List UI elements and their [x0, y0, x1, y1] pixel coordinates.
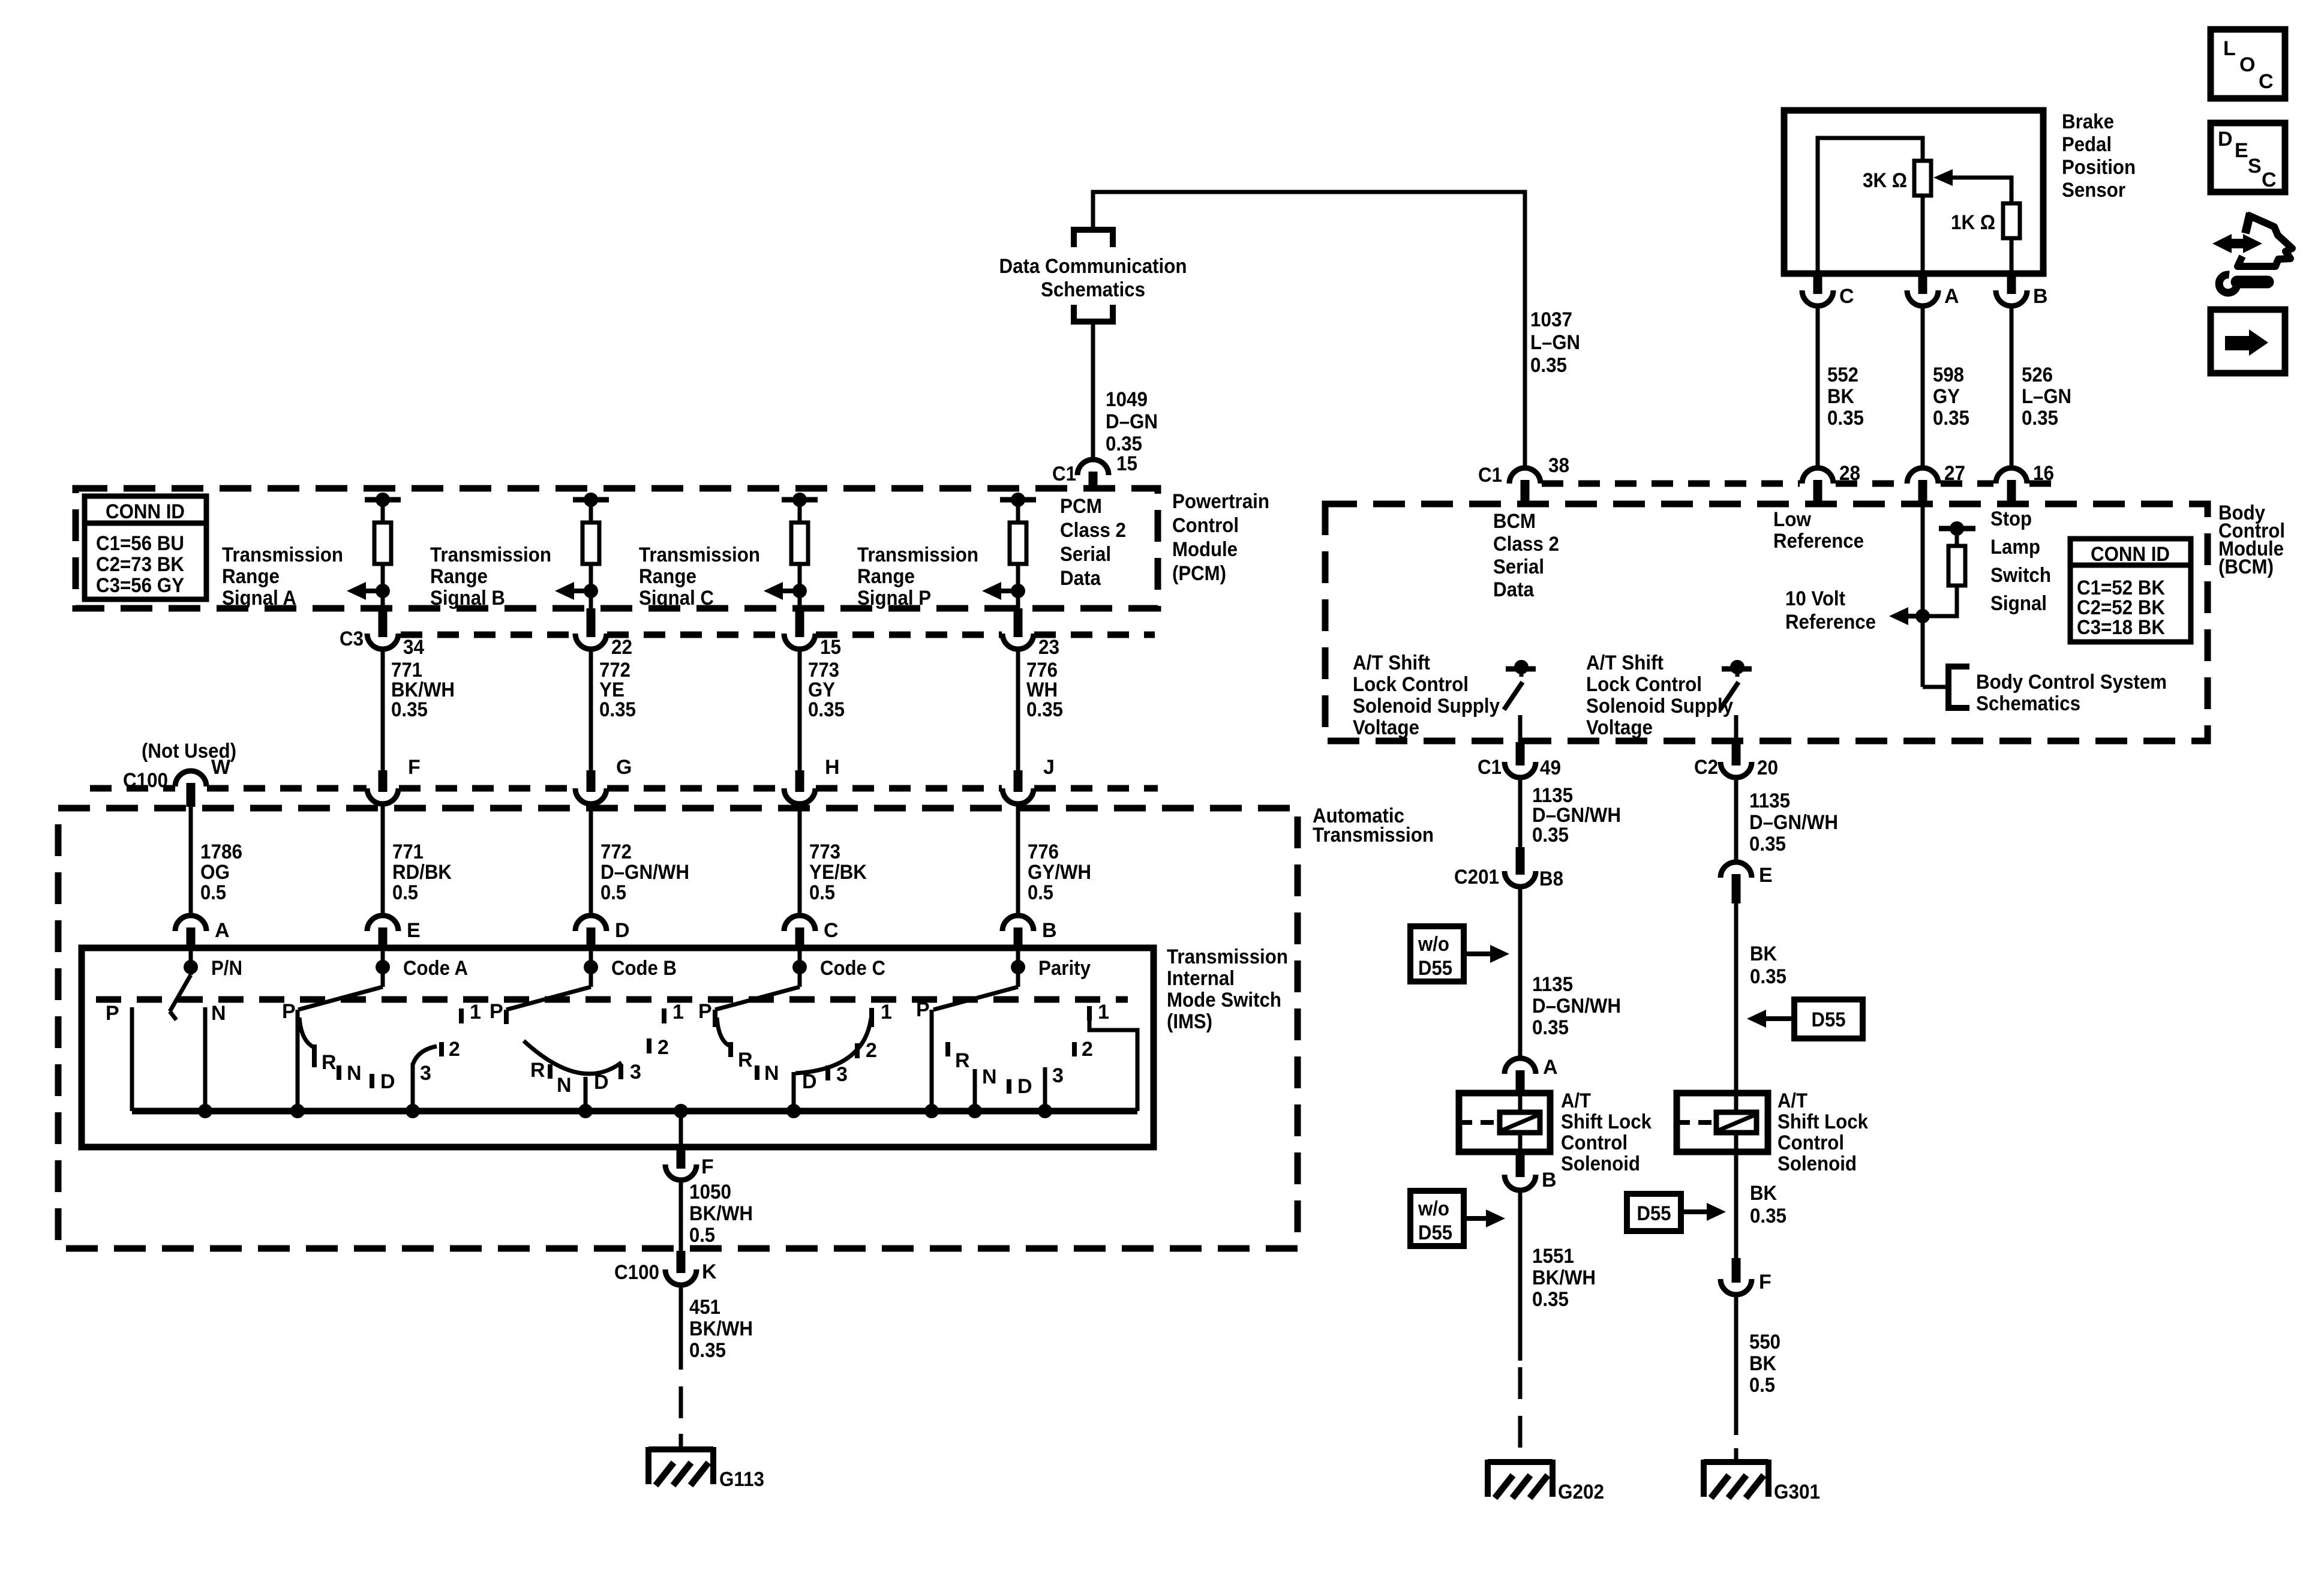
contact N of Parity (to bus) [973, 1069, 977, 1111]
connector pin sensor A [1918, 274, 1927, 294]
svg-text:BK: BK [1750, 942, 1777, 965]
connector pin C100 H [795, 770, 804, 792]
svg-text:BK/WH: BK/WH [1532, 1266, 1596, 1289]
svg-text:Transmission: Transmission [1313, 824, 1434, 846]
wire 1049 D-GN [1091, 322, 1095, 461]
svg-text:Reference: Reference [1773, 530, 1864, 553]
svg-text:0.35: 0.35 [1026, 698, 1063, 721]
arrow option D55 (lower) [1681, 1209, 1710, 1214]
svg-text:Low: Low [1773, 508, 1812, 531]
svg-text:Code B: Code B [611, 957, 677, 980]
contact R of Code B [548, 1064, 553, 1079]
connector pin C2 20 (BCM) [1732, 742, 1741, 766]
wire BK 0.35 (upper right) [1734, 903, 1739, 1095]
svg-text:CONN ID: CONN ID [2091, 543, 2170, 566]
connector pin C100 F [379, 770, 388, 792]
svg-text:C100: C100 [614, 1261, 659, 1284]
svg-text:3: 3 [836, 1063, 848, 1086]
svg-text:Solenoid Supply: Solenoid Supply [1586, 695, 1733, 718]
contact D of Code A [370, 1074, 374, 1088]
switch P/N lever [170, 975, 191, 1011]
switch Code B (IMS) input wire, junction and lever [589, 949, 593, 987]
contact 3 of Parity (to bus) [1043, 1067, 1047, 1111]
svg-text:(PCM): (PCM) [1172, 562, 1226, 585]
connector row C3 dashed line [401, 632, 575, 638]
svg-text:F: F [408, 756, 421, 779]
resistor internal PCM Transmission Range Signal P pull-up [1000, 497, 1036, 503]
svg-text:Brake: Brake [2062, 110, 2114, 133]
svg-text:E: E [407, 919, 421, 942]
wire 451 BK/WH to ground [679, 1285, 683, 1370]
svg-text:Serial: Serial [1493, 556, 1544, 578]
module box Body Control Module (BCM) dashed outline [1325, 504, 2208, 741]
connector pin C3 22 (PCM) [587, 608, 596, 637]
resistor internal PCM Transmission Range Signal C pull-up [782, 497, 818, 503]
contact R of Code A [312, 1044, 317, 1067]
svg-text:C3=56 GY: C3=56 GY [96, 574, 184, 597]
ground G301 [1704, 1459, 1768, 1465]
wire 1551 BK/WH to ground [1518, 1189, 1523, 1361]
dashed line through switch levers [96, 996, 1128, 1003]
svg-text:451: 451 [689, 1296, 720, 1319]
svg-text:2: 2 [866, 1039, 877, 1062]
svg-text:L–GN: L–GN [1530, 331, 1580, 354]
svg-text:YE/BK: YE/BK [809, 861, 867, 884]
contact D of Parity [1007, 1079, 1011, 1094]
arrow option w/o D55 (upper) [1464, 951, 1494, 956]
option box w/o D55 (upper) [1410, 926, 1464, 981]
svg-text:Reference: Reference [1785, 611, 1876, 634]
wire 776 GY/WH to IMS pin B [1016, 804, 1020, 916]
contact N of Code A [337, 1065, 341, 1080]
svg-text:BCM: BCM [1493, 510, 1536, 533]
connector pin C100 W (not used) [175, 771, 206, 786]
svg-text:0.35: 0.35 [689, 1339, 726, 1362]
svg-text:Sensor: Sensor [2062, 179, 2125, 202]
arc P to R Code C [717, 1017, 731, 1046]
potentiometer wiper arrow [1949, 178, 2011, 203]
svg-text:P/N: P/N [211, 957, 242, 980]
connector pin IMS E [367, 915, 398, 931]
svg-text:H: H [825, 756, 840, 779]
connector table CONN ID (PCM C1=56 BU C2=73 BK C3=56 GY) [85, 496, 206, 599]
contact P of Code B [504, 1010, 509, 1024]
svg-text:Module: Module [1172, 538, 1238, 561]
svg-text:Shift Lock: Shift Lock [1561, 1110, 1652, 1133]
svg-text:N: N [211, 1002, 226, 1025]
ground G113 [679, 1434, 683, 1449]
svg-text:C: C [2262, 169, 2277, 191]
svg-text:A: A [215, 919, 230, 942]
svg-text:J: J [1043, 756, 1055, 779]
option box D55 (lower) [1627, 1194, 1681, 1231]
resistor internal PCM Transmission Range Signal A pull-up [365, 497, 401, 503]
svg-text:D–GN: D–GN [1106, 410, 1158, 433]
svg-text:0.35: 0.35 [1532, 1288, 1569, 1311]
svg-text:Schematics: Schematics [1976, 692, 2080, 715]
svg-text:0.5: 0.5 [600, 881, 626, 904]
svg-text:N: N [347, 1062, 362, 1085]
svg-text:23: 23 [1038, 636, 1059, 659]
off-page reference Body Control System Schematics [1948, 667, 1969, 708]
svg-text:Shift Lock: Shift Lock [1777, 1110, 1868, 1133]
wire 1050 BK/WH [679, 1180, 683, 1251]
svg-text:D: D [615, 919, 630, 942]
svg-text:G301: G301 [1774, 1481, 1820, 1503]
svg-text:0.35: 0.35 [2022, 407, 2058, 430]
switch Parity (IMS) input wire, junction and lever [1016, 949, 1020, 987]
svg-text:2: 2 [657, 1036, 669, 1059]
svg-text:Lock Control: Lock Control [1586, 673, 1702, 696]
connector pin BCM 28 [1802, 468, 1833, 484]
svg-text:R: R [955, 1049, 970, 1072]
svg-text:C1: C1 [1478, 464, 1502, 487]
svg-text:Data Communication: Data Communication [999, 255, 1187, 278]
svg-text:Transmission: Transmission [430, 544, 551, 566]
switch A/T shift lock supply (right) in BCM [1722, 667, 1752, 672]
svg-text:C1=56 BU: C1=56 BU [96, 532, 184, 555]
svg-text:0.35: 0.35 [391, 698, 428, 721]
icon box LOC [2211, 29, 2285, 98]
solenoid A/T Shift Lock Control Solenoid (left) [1459, 1093, 1550, 1152]
svg-text:Control: Control [1172, 514, 1239, 537]
switch A/T shift lock supply (left) in BCM [1506, 667, 1536, 672]
component box Brake Pedal Position Sensor [1784, 110, 2043, 274]
svg-text:L: L [2223, 37, 2236, 60]
contact P of Code C [713, 1010, 717, 1027]
svg-text:D: D [802, 1070, 817, 1093]
svg-text:20: 20 [1757, 757, 1778, 779]
svg-text:0.35: 0.35 [1750, 1205, 1786, 1227]
svg-text:15: 15 [820, 636, 841, 659]
svg-text:Control: Control [1561, 1131, 1628, 1154]
svg-text:F: F [701, 1155, 714, 1178]
arc P to R Code A [299, 1017, 314, 1047]
svg-text:B: B [1542, 1169, 1557, 1191]
svg-text:22: 22 [611, 636, 632, 659]
svg-text:RD/BK: RD/BK [392, 861, 452, 884]
svg-text:Parity: Parity [1038, 957, 1091, 980]
arrow 10 Volt Reference [1905, 614, 1923, 619]
svg-text:C1: C1 [1052, 463, 1076, 485]
svg-text:O: O [2239, 53, 2255, 76]
wire 1K to pin B [2010, 238, 2014, 274]
wire 771 RD/BK to IMS pin E [381, 804, 385, 916]
svg-text:N: N [982, 1065, 997, 1088]
bus wire IMS common (bottom) [132, 1108, 1137, 1115]
svg-text:34: 34 [403, 636, 424, 659]
wire 1135 D-GN/WH (lower) [1518, 887, 1523, 1059]
svg-text:0.35: 0.35 [1827, 407, 1864, 430]
svg-text:2: 2 [1082, 1038, 1093, 1061]
connector row C100 dashed line [90, 785, 175, 792]
svg-text:0.35: 0.35 [1750, 965, 1786, 988]
svg-text:Signal P: Signal P [857, 587, 931, 610]
svg-text:Powertrain: Powertrain [1172, 490, 1269, 513]
svg-text:2: 2 [449, 1038, 460, 1061]
svg-text:Range: Range [857, 565, 915, 588]
svg-text:B: B [2033, 285, 2048, 308]
svg-text:CONN ID: CONN ID [106, 500, 185, 523]
svg-text:D55: D55 [1812, 1008, 1846, 1031]
svg-text:Solenoid: Solenoid [1561, 1152, 1640, 1175]
wire arc center to bus Code B [584, 1077, 588, 1111]
contact 3 of Code C [825, 1065, 830, 1080]
svg-text:Transmission: Transmission [1167, 945, 1288, 968]
svg-text:C: C [1839, 285, 1854, 308]
connector table CONN ID (BCM C1=52 BK C2=52 BK C3=18 BK) [2070, 539, 2191, 642]
svg-text:1K Ω: 1K Ω [1951, 211, 1995, 234]
svg-text:G: G [616, 756, 632, 779]
svg-text:0.35: 0.35 [1933, 407, 1969, 430]
svg-text:C: C [2259, 70, 2274, 93]
svg-text:L–GN: L–GN [2022, 385, 2071, 408]
arc 3 to 2 Code A [413, 1046, 437, 1065]
svg-text:BK: BK [1827, 385, 1854, 408]
svg-text:Lamp: Lamp [1990, 536, 2040, 559]
svg-text:Voltage: Voltage [1586, 716, 1653, 739]
connector pin C1 15 (PCM) [1077, 460, 1109, 475]
connector pin C1 38 (BCM) [1509, 468, 1541, 484]
svg-text:10 Volt: 10 Volt [1785, 587, 1845, 610]
wire class 2 serial data link (top) [1093, 192, 1525, 469]
connector pin F (in-line right) [1732, 1258, 1741, 1283]
contact D wire to bus Code C [792, 1072, 796, 1111]
svg-text:Body Control System: Body Control System [1976, 671, 2167, 694]
svg-text:Switch: Switch [1990, 564, 2051, 587]
svg-text:P: P [106, 1002, 119, 1025]
svg-text:1786: 1786 [200, 840, 242, 863]
svg-text:Class 2: Class 2 [1060, 519, 1126, 542]
connector pin IMS C [784, 915, 815, 931]
svg-text:C201: C201 [1454, 866, 1499, 888]
svg-text:Position: Position [2062, 156, 2136, 179]
svg-text:552: 552 [1827, 364, 1858, 386]
contact 1 of Parity with jumper to bus end [1087, 1006, 1092, 1020]
resistor 3K ohm (potentiometer) [1914, 161, 1931, 196]
svg-text:D–GN/WH: D–GN/WH [1749, 811, 1838, 834]
svg-text:3K Ω: 3K Ω [1863, 169, 1907, 192]
svg-text:1135: 1135 [1749, 789, 1790, 812]
switch Code A (IMS) input wire, junction and lever [381, 949, 385, 987]
svg-text:BK/WH: BK/WH [689, 1202, 753, 1225]
wire sensor internal (pin C to 3K top) [1818, 138, 1923, 274]
svg-text:Transmission: Transmission [222, 544, 343, 566]
svg-text:E: E [2235, 139, 2248, 162]
svg-text:N: N [764, 1062, 779, 1085]
svg-text:1: 1 [470, 1001, 481, 1023]
svg-text:P: P [698, 1000, 712, 1023]
svg-text:Mode Switch: Mode Switch [1167, 989, 1281, 1011]
svg-text:1050: 1050 [689, 1181, 731, 1203]
svg-text:C: C [824, 919, 839, 942]
arrow option w/o D55 (lower) [1464, 1216, 1490, 1221]
svg-text:1049: 1049 [1106, 388, 1148, 411]
svg-text:BK: BK [1749, 1352, 1776, 1375]
contact 1 of Code C [869, 1008, 874, 1027]
svg-text:C2=73 BK: C2=73 BK [96, 553, 184, 576]
svg-text:Range: Range [639, 565, 696, 588]
svg-text:R: R [322, 1051, 337, 1074]
svg-text:G113: G113 [719, 1468, 764, 1491]
solenoid A/T Shift Lock Control Solenoid (right) [1677, 1093, 1768, 1152]
connector pin IMS D [575, 915, 606, 931]
contact N of Code C [755, 1065, 759, 1080]
connector pin sensor B [2007, 274, 2016, 294]
svg-text:D55: D55 [1418, 1221, 1452, 1244]
icon vehicle with wrench [2212, 234, 2232, 253]
svg-text:Transmission: Transmission [639, 544, 760, 566]
svg-text:0.35: 0.35 [1530, 354, 1567, 377]
svg-text:550: 550 [1749, 1331, 1780, 1353]
svg-text:R: R [530, 1059, 545, 1082]
ground G202 [1488, 1459, 1553, 1465]
wire 550 BK to ground [1734, 1295, 1739, 1435]
svg-text:B8: B8 [1539, 867, 1563, 890]
contact 3 of Code B [618, 1064, 623, 1079]
contact 2 of Code A [439, 1042, 444, 1056]
connector row BCM top dashed line [1542, 481, 1800, 487]
wire 77x A PCM to C100 [381, 649, 385, 770]
svg-text:Solenoid: Solenoid [1777, 1152, 1857, 1175]
svg-text:w/o: w/o [1418, 1197, 1449, 1220]
connector pin C201 B8 [1516, 847, 1525, 875]
connector pin BCM 27 [1907, 468, 1938, 484]
icon box DESC [2211, 123, 2285, 192]
connector pin C3 23 (PCM) [1014, 608, 1023, 637]
svg-text:BK/WH: BK/WH [689, 1317, 753, 1340]
wire 77x P PCM to C100 [1016, 649, 1020, 770]
svg-text:Class 2: Class 2 [1493, 533, 1559, 556]
connector pin BCM 16 [1996, 468, 2027, 484]
connector pin F (IMS output) [677, 1147, 686, 1169]
svg-text:Signal A: Signal A [222, 587, 296, 610]
resistor 1K ohm [2003, 203, 2020, 238]
svg-text:0.5: 0.5 [392, 881, 418, 904]
svg-text:3: 3 [1052, 1064, 1064, 1087]
arrow Transmission Range Signal A [362, 589, 383, 593]
svg-text:Stop: Stop [1990, 508, 2032, 530]
svg-text:PCM: PCM [1060, 495, 1102, 518]
svg-text:A/T: A/T [1777, 1089, 1807, 1112]
svg-text:D55: D55 [1637, 1202, 1671, 1225]
wire PCM signal A internal with junction [381, 564, 385, 608]
svg-text:A/T Shift: A/T Shift [1586, 652, 1664, 674]
svg-text:Range: Range [222, 565, 280, 588]
svg-text:0.5: 0.5 [1028, 881, 1053, 904]
svg-text:P: P [490, 1000, 503, 1023]
svg-text:A: A [1543, 1056, 1558, 1079]
wire PCM signal P internal with junction [1016, 564, 1020, 608]
svg-text:0.5: 0.5 [200, 881, 226, 904]
arrow Transmission Range Signal B [571, 589, 591, 593]
module box PCM (Powertrain Control Module) dashed outline [76, 488, 1158, 608]
svg-text:Data: Data [1060, 567, 1101, 590]
connector pin E (in-line) [1721, 862, 1752, 878]
switch Code C (IMS) input wire, junction and lever [798, 949, 802, 987]
contact 2 of Code B [647, 1038, 651, 1053]
svg-text:S: S [2248, 155, 2262, 178]
arc 1 to D Code C [795, 1018, 871, 1073]
svg-text:1: 1 [1098, 1001, 1109, 1023]
svg-text:Transmission: Transmission [857, 544, 978, 566]
svg-text:0.5: 0.5 [809, 881, 835, 904]
wire IMS common output to pin F [679, 1111, 683, 1147]
wire 77x B PCM to C100 [589, 649, 593, 770]
svg-text:Data: Data [1493, 578, 1535, 601]
contact R of Parity [945, 1042, 950, 1056]
svg-text:Control: Control [1777, 1131, 1844, 1154]
svg-text:0.5: 0.5 [1749, 1374, 1775, 1397]
svg-text:Serial: Serial [1060, 543, 1111, 566]
connector pin IMS A [175, 915, 206, 931]
svg-text:0.35: 0.35 [808, 698, 845, 721]
svg-text:0.35: 0.35 [599, 698, 636, 721]
svg-text:D: D [380, 1070, 395, 1093]
svg-text:C3: C3 [340, 628, 364, 650]
arc R-N-D-3 Code B [524, 1041, 621, 1074]
svg-text:OG: OG [200, 861, 230, 884]
connector pin C3 34 (PCM) [379, 608, 388, 637]
svg-text:Internal: Internal [1167, 967, 1235, 990]
connector pin C3 15 (PCM) [795, 608, 804, 637]
svg-text:0.35: 0.35 [1749, 833, 1786, 855]
wire 773 YE/BK to IMS pin C [798, 804, 802, 916]
svg-text:K: K [702, 1260, 717, 1283]
icon box right arrow [2211, 310, 2285, 373]
wire 1135 D-GN/WH (upper) [1518, 778, 1523, 847]
svg-text:1: 1 [881, 1001, 892, 1023]
wire 598 GY [1921, 306, 1925, 468]
svg-text:Lock Control: Lock Control [1353, 673, 1469, 696]
svg-text:C1: C1 [1478, 756, 1502, 779]
svg-text:3: 3 [630, 1061, 641, 1083]
contact 2 of Parity [1072, 1042, 1077, 1056]
svg-text:P: P [916, 998, 930, 1021]
connector pin IMS B [1002, 915, 1034, 931]
wire 1135 D-GN/WH (right) [1734, 778, 1739, 862]
svg-text:1037: 1037 [1530, 308, 1572, 331]
wire BK 0.35 (below solenoid) [1734, 1152, 1739, 1258]
off-page reference Data Communication Schematics [1074, 230, 1113, 247]
wire 1786 OG to IMS pin A [189, 807, 193, 916]
svg-text:776: 776 [1028, 840, 1059, 863]
svg-text:Signal C: Signal C [639, 587, 714, 610]
svg-text:Code C: Code C [820, 957, 885, 980]
svg-text:C3=18 BK: C3=18 BK [2077, 616, 2165, 639]
svg-text:Solenoid Supply: Solenoid Supply [1353, 695, 1500, 718]
connector pin C100 G [587, 770, 596, 792]
svg-text:D: D [1017, 1075, 1032, 1098]
svg-text:598: 598 [1933, 364, 1964, 386]
wire stop lamp switch signal internal (pin 27 down) [1921, 505, 1925, 687]
connector pin A (shift lock solenoid) [1505, 1058, 1536, 1074]
svg-text:Signal: Signal [1990, 592, 2047, 615]
svg-text:Voltage: Voltage [1353, 716, 1419, 739]
component box Transmission Internal Mode Switch (IMS) [82, 948, 1154, 1147]
svg-text:B: B [1042, 919, 1057, 942]
svg-text:D–GN/WH: D–GN/WH [600, 861, 689, 884]
module box Automatic Transmission dashed outline [58, 808, 1298, 1248]
svg-text:C2: C2 [1694, 756, 1718, 779]
svg-text:49: 49 [1540, 757, 1561, 779]
wire 77x C PCM to C100 [798, 649, 802, 770]
svg-text:D–GN/WH: D–GN/WH [1532, 995, 1621, 1017]
svg-text:A/T Shift: A/T Shift [1353, 652, 1430, 674]
option box w/o D55 (lower) [1410, 1191, 1464, 1246]
svg-text:N: N [557, 1074, 572, 1097]
svg-text:Pedal: Pedal [2062, 133, 2112, 156]
